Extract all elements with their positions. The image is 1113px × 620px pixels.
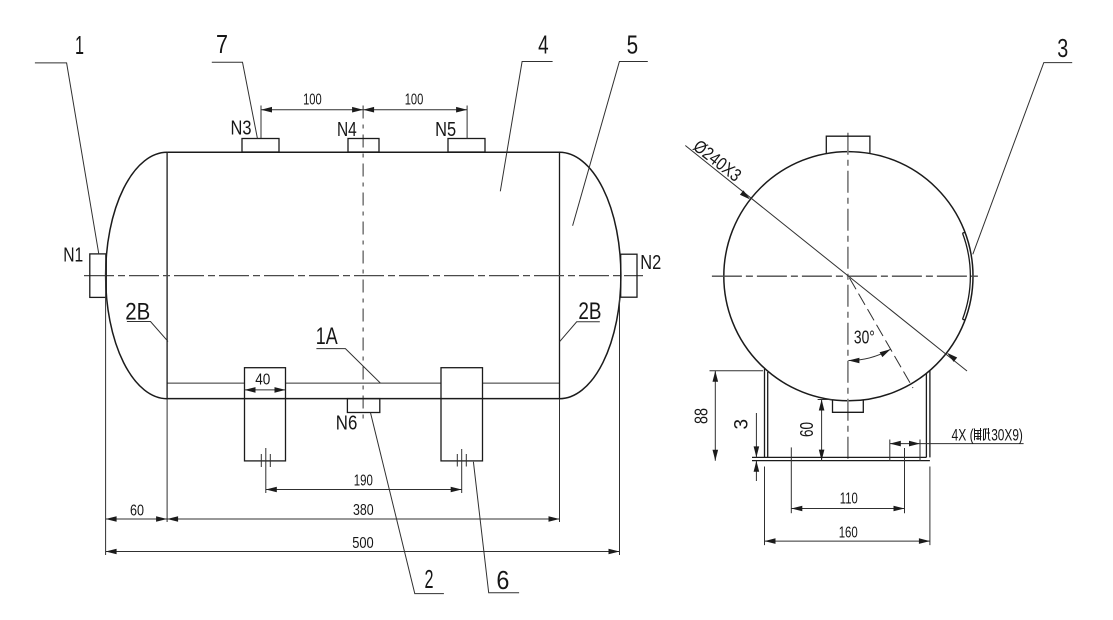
svg-text:N4: N4 [337, 119, 357, 141]
weld label 1A [316, 349, 380, 383]
dimension 100 right [363, 107, 374, 113]
nozzle N6 [347, 399, 379, 413]
dimension 190 [266, 489, 462, 491]
dimension 380 [167, 518, 559, 520]
support leg right [441, 368, 483, 461]
svg-text:30°: 30° [854, 328, 875, 348]
shell circle [724, 152, 973, 401]
nozzle N4 [348, 139, 379, 153]
svg-text:N6: N6 [336, 413, 358, 435]
svg-text:N5: N5 [435, 119, 456, 141]
svg-text:3: 3 [732, 419, 753, 430]
svg-text:4: 4 [538, 30, 549, 60]
diameter dimension line [685, 146, 967, 372]
svg-text:1A: 1A [316, 323, 338, 350]
right tangent seam [559, 152, 561, 398]
weld label 2B left [127, 322, 168, 342]
svg-text:60: 60 [130, 502, 144, 519]
horizontal centerline [84, 275, 643, 277]
dimension 60 (end view) [818, 400, 833, 461]
leader balloon 2 [371, 413, 444, 594]
leader balloon 4 [500, 62, 552, 192]
svg-text:3: 3 [1057, 33, 1068, 63]
nozzle N2 arc band [963, 232, 971, 320]
bottom interior line [167, 382, 559, 384]
vertical centerline [847, 133, 849, 462]
slot dimension 30 [890, 440, 1024, 461]
dimension 100 left [261, 106, 467, 139]
svg-text:110: 110 [840, 491, 858, 508]
nozzle N2 [621, 254, 637, 297]
leader balloon 1 [35, 63, 99, 254]
svg-text:40: 40 [255, 371, 270, 388]
slot label CJK glyph 2 [983, 428, 991, 440]
svg-text:88: 88 [692, 408, 712, 424]
dimension 88 [710, 371, 764, 461]
svg-text:160: 160 [839, 524, 858, 541]
dimension 40 [245, 389, 286, 391]
left tangent seam [166, 152, 168, 398]
svg-text:60: 60 [797, 422, 817, 437]
svg-text:500: 500 [352, 535, 374, 552]
svg-text:6: 6 [496, 565, 509, 595]
30 degree line [850, 278, 914, 388]
slot label CJK glyph 1 [975, 428, 982, 441]
dimension 110 [791, 508, 904, 510]
nozzle N3 [242, 139, 279, 153]
extension line right tangent [559, 399, 561, 522]
weld label 2B right [560, 322, 600, 342]
support leg left [245, 368, 286, 461]
support leg right (end view) [926, 370, 930, 457]
leader balloon 7 [212, 62, 258, 138]
svg-text:N1: N1 [63, 245, 83, 267]
horizontal centerline [712, 275, 982, 277]
anchor slot right leg [457, 449, 466, 493]
leader balloon 6 [473, 462, 519, 593]
svg-text:190: 190 [354, 473, 373, 490]
shell bottom line [167, 398, 559, 400]
svg-text:N3: N3 [231, 118, 252, 140]
top nozzle [826, 136, 870, 154]
dimension 3 base plate [755, 413, 757, 481]
svg-text:100: 100 [405, 92, 424, 109]
leader balloon 3 [973, 63, 1072, 255]
extension line left tangent [166, 399, 168, 522]
left head ellipse [106, 152, 168, 398]
base plate [752, 457, 930, 460]
svg-text:4X (: 4X ( [952, 426, 974, 445]
dimension 160 [765, 467, 930, 546]
svg-text:2: 2 [425, 564, 434, 594]
svg-text:30X9): 30X9) [991, 426, 1023, 445]
anchor slot left leg [261, 448, 270, 493]
nozzle N1 [90, 254, 107, 298]
dimension 60 [106, 518, 168, 520]
bolt centerline right [904, 448, 906, 513]
extension line right end [619, 298, 621, 555]
support leg left (end view) [765, 369, 768, 457]
vertical centerline [362, 106, 364, 425]
svg-text:7: 7 [216, 29, 228, 59]
shell top line [167, 151, 559, 153]
svg-text:1: 1 [75, 30, 84, 60]
leader balloon 5 [573, 62, 648, 226]
30 degree arc [848, 349, 890, 360]
svg-text:2B: 2B [125, 299, 150, 326]
dimension 500 [106, 551, 620, 553]
svg-text:5: 5 [627, 30, 639, 60]
extension line left end [105, 254, 107, 555]
bottom nozzle [833, 400, 864, 412]
bolt centerline left [790, 447, 792, 513]
right head ellipse [560, 152, 621, 398]
svg-text:2B: 2B [578, 298, 601, 325]
svg-text:380: 380 [353, 502, 374, 519]
nozzle N5 [448, 139, 485, 153]
svg-text:N2: N2 [640, 252, 661, 274]
svg-text:100: 100 [303, 92, 322, 109]
